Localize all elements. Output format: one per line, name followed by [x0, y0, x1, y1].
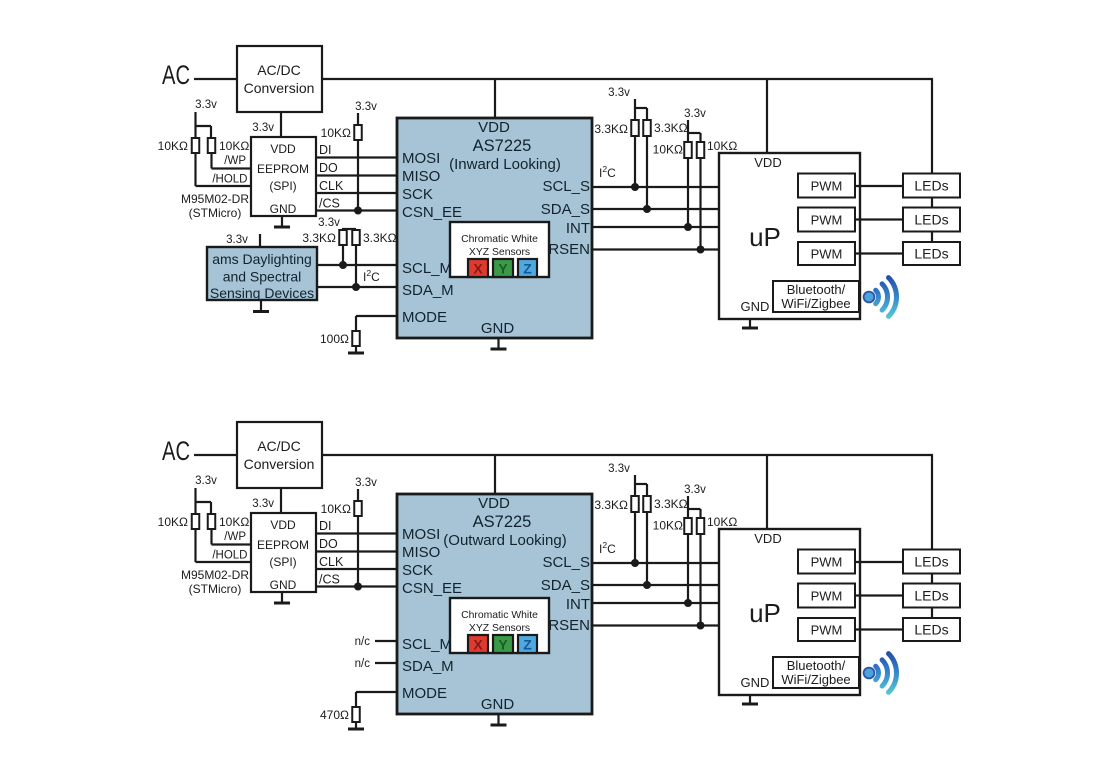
block LEDs 1 [903, 550, 960, 574]
block EEPROM (SPI) (top) [251, 137, 316, 216]
IC uP microcontroller (bottom) [719, 529, 860, 695]
svg-text:/WP: /WP [224, 531, 246, 543]
resistor 3.3K&#937; (SDA_S pullup) [643, 120, 651, 136]
svg-text:n/c: n/c [355, 658, 371, 670]
wire rail to AS7225 VDD [494, 79, 496, 119]
wire 3.3v feed [634, 99, 636, 120]
wire AC/DC to EEPROM VDD [280, 112, 282, 137]
junction RSEN [697, 622, 705, 630]
block EEPROM (SPI) (bottom) [251, 513, 316, 592]
svg-text:10KΩ: 10KΩ [707, 139, 737, 153]
resistor 10K&#937; (CSN_EE pullup) [354, 501, 362, 516]
wire SCL_M net [317, 264, 397, 266]
svg-text:VDD: VDD [270, 518, 296, 532]
wire SDA_M net [317, 286, 397, 288]
svg-text:10KΩ: 10KΩ [653, 519, 683, 533]
ground (AS7225) [497, 338, 499, 349]
wire 3.3v feed [687, 120, 689, 142]
resistor 3.3K&#937; (SDA_M pullup) [352, 230, 360, 245]
svg-text:SCL_S: SCL_S [542, 554, 590, 571]
resistor 10K&#937; (/WP pullup) [208, 514, 216, 529]
junction SCL_S [631, 183, 639, 191]
svg-text:I2C: I2C [363, 268, 380, 284]
svg-text:M95M02-DR: M95M02-DR [181, 192, 249, 206]
wire AC to AC/DC [194, 454, 237, 456]
svg-text:3.3v: 3.3v [252, 122, 274, 134]
icon wireless signal [864, 278, 897, 317]
block LEDs 2 [903, 208, 960, 232]
wire 3.3v to ams block [259, 234, 261, 247]
svg-text:10KΩ: 10KΩ [219, 139, 249, 153]
svg-text:LEDs: LEDs [914, 588, 948, 604]
block PWM 2 [798, 208, 855, 232]
svg-text:VDD: VDD [478, 119, 510, 136]
svg-text:X: X [473, 261, 483, 277]
svg-text:3.3v: 3.3v [355, 101, 377, 113]
svg-text:WiFi/Zigbee: WiFi/Zigbee [781, 296, 850, 311]
svg-text:(STMicro): (STMicro) [189, 206, 242, 220]
no-connect SDA_M [375, 662, 396, 664]
IC AS7225 (Outward Looking) [397, 494, 592, 714]
svg-text:AC: AC [162, 436, 190, 466]
block AC/DC Conversion (bottom) [237, 422, 322, 488]
block LEDs 2 [903, 584, 960, 608]
sensor X (red) [468, 635, 488, 653]
svg-text:(Outward Looking): (Outward Looking) [443, 532, 566, 549]
block LEDs 3 [903, 618, 960, 641]
sensor X (red) [468, 259, 488, 277]
svg-text:I2C: I2C [599, 164, 616, 180]
junction SDA_S [643, 205, 651, 213]
svg-text:CLK: CLK [319, 179, 344, 193]
wire PWM2 to LEDs2 [855, 594, 903, 596]
resistor 3.3K&#937; (SDA_S pullup) [643, 496, 651, 512]
wire PWM3 to LEDs3 [855, 628, 903, 630]
wire rail to AS7225 VDD [494, 455, 496, 495]
wire CLK-SCK [316, 568, 397, 570]
resistor 10K&#937; (/HOLD pullup) [192, 138, 200, 153]
svg-text:(SPI): (SPI) [269, 179, 296, 193]
svg-text:SCL_S: SCL_S [542, 178, 590, 195]
wire /HOLD net [194, 529, 196, 562]
sensor Z (blue) [518, 635, 537, 653]
svg-text:SDA_M: SDA_M [402, 282, 454, 299]
svg-text:MODE: MODE [402, 309, 447, 326]
wire resistor to /CS net [357, 516, 359, 587]
svg-text:/WP: /WP [224, 155, 246, 167]
svg-text:3.3v: 3.3v [318, 217, 340, 229]
wire resistor to ground [355, 722, 357, 729]
svg-text:3.3KΩ: 3.3KΩ [594, 122, 628, 136]
svg-text:LEDs: LEDs [914, 212, 948, 228]
svg-text:3.3v: 3.3v [684, 108, 706, 120]
svg-text:DO: DO [319, 161, 338, 175]
icon wireless signal [864, 654, 897, 693]
resistor 10K&#937; (CSN_EE pullup) [354, 125, 362, 140]
svg-text:3.3v: 3.3v [195, 475, 217, 487]
wire DI-MOSI [316, 532, 397, 534]
svg-text:MOSI: MOSI [402, 526, 440, 543]
svg-text:10KΩ: 10KΩ [321, 126, 351, 140]
svg-text:GND: GND [481, 320, 515, 337]
svg-text:10KΩ: 10KΩ [707, 515, 737, 529]
junction INT [684, 223, 692, 231]
svg-text:MOSI: MOSI [402, 150, 440, 167]
svg-text:CSN_EE: CSN_EE [402, 580, 462, 597]
svg-text:LEDs: LEDs [914, 246, 948, 262]
svg-text:Chromatic White: Chromatic White [461, 610, 538, 621]
wire 3.3v feed [687, 496, 689, 518]
svg-text:3.3KΩ: 3.3KΩ [654, 497, 688, 511]
wire LEDs2 to LEDs3 [931, 608, 933, 619]
svg-text:WiFi/Zigbee: WiFi/Zigbee [781, 672, 850, 687]
no-connect SCL_M [375, 640, 396, 642]
svg-text:Bluetooth/: Bluetooth/ [787, 658, 846, 673]
svg-text:3.3v: 3.3v [608, 87, 630, 99]
wire SDA_S net [592, 584, 719, 586]
wire LEDs1 to LEDs2 [931, 574, 933, 584]
wire PWM1 to LEDs1 [855, 561, 903, 563]
svg-text:CSN_EE: CSN_EE [402, 204, 462, 221]
resistor 10K&#937; (INT pullup) [684, 518, 692, 534]
svg-text:DI: DI [319, 143, 332, 157]
svg-text:PWM: PWM [811, 213, 843, 228]
svg-text:10KΩ: 10KΩ [158, 139, 188, 153]
wire /HOLD net [194, 153, 196, 186]
svg-text:PWM: PWM [811, 247, 843, 262]
svg-text:3.3KΩ: 3.3KΩ [363, 231, 397, 245]
IC uP microcontroller (top) [719, 153, 860, 319]
svg-text:ams Daylighting: ams Daylighting [212, 251, 312, 267]
svg-text:MODE: MODE [402, 685, 447, 702]
junction INT [684, 599, 692, 607]
svg-text:AC/DC: AC/DC [257, 62, 301, 78]
svg-text:/CS: /CS [319, 197, 340, 211]
svg-text:RSEN: RSEN [548, 241, 590, 258]
wire RSEN net [592, 248, 719, 250]
svg-text:3.3v: 3.3v [608, 463, 630, 475]
svg-text:AC: AC [162, 60, 190, 90]
wire rail to LEDs chain [931, 455, 933, 550]
svg-text:MISO: MISO [402, 544, 440, 561]
resistor 3.3K&#937; (SCL_M pullup) [339, 230, 347, 245]
wire AC to AC/DC [194, 78, 237, 80]
sensor Z (blue) [518, 259, 537, 277]
ground (uP) [749, 319, 751, 328]
svg-text:uP: uP [749, 222, 781, 252]
block PWM 1 [798, 550, 855, 574]
block Bluetooth/WiFi/Zigbee [773, 281, 859, 312]
svg-text:VDD: VDD [754, 155, 781, 170]
svg-text:GND: GND [270, 202, 297, 216]
svg-text:INT: INT [566, 220, 590, 237]
svg-text:470Ω: 470Ω [320, 708, 349, 722]
svg-text:SCL_M: SCL_M [402, 636, 452, 653]
wire 3.3v feed [194, 112, 196, 138]
svg-text:Z: Z [523, 261, 532, 277]
wire MODE net [356, 691, 397, 693]
wire 3.3v to resistor [357, 489, 359, 501]
ground (MODE) [348, 728, 364, 731]
resistor 10K&#937; (/HOLD pullup) [192, 514, 200, 529]
svg-text:n/c: n/c [355, 636, 371, 648]
wire PWM2 to LEDs2 [855, 218, 903, 220]
svg-text:M95M02-DR: M95M02-DR [181, 568, 249, 582]
block PWM 3 [798, 242, 855, 265]
block AC/DC Conversion (top) [237, 46, 322, 112]
svg-text:AS7225: AS7225 [473, 137, 532, 155]
svg-text:MISO: MISO [402, 168, 440, 185]
wire DO-MISO [316, 174, 397, 176]
svg-text:LEDs: LEDs [914, 554, 948, 570]
wire 3.3v to resistor [357, 113, 359, 125]
svg-text:/HOLD: /HOLD [212, 174, 247, 186]
svg-text:Sensing Devices: Sensing Devices [210, 285, 314, 301]
resistor 3.3K&#937; (SCL_S pullup) [631, 120, 639, 136]
wire MODE net [356, 315, 397, 317]
svg-text:GND: GND [481, 696, 515, 713]
svg-text:SCL_M: SCL_M [402, 260, 452, 277]
svg-text:EEPROM: EEPROM [257, 538, 309, 552]
block Chromatic White XYZ Sensors [450, 598, 549, 653]
wire INT net [592, 602, 719, 604]
junction SCL_M [339, 261, 347, 269]
junction CSN_EE/pullup [354, 583, 362, 591]
svg-text:RSEN: RSEN [548, 617, 590, 634]
svg-text:CLK: CLK [319, 555, 344, 569]
svg-text:AS7225: AS7225 [473, 513, 532, 531]
svg-text:INT: INT [566, 596, 590, 613]
wire SCL_S net [592, 562, 719, 564]
svg-text:10KΩ: 10KΩ [219, 515, 249, 529]
svg-text:SDA_S: SDA_S [541, 201, 590, 218]
ground (uP) [749, 695, 751, 704]
wire rail to uP VDD [766, 79, 768, 153]
svg-text:Bluetooth/: Bluetooth/ [787, 282, 846, 297]
svg-text:VDD: VDD [478, 495, 510, 512]
svg-text:VDD: VDD [754, 531, 781, 546]
svg-text:3.3v: 3.3v [684, 484, 706, 496]
wire INT net [592, 226, 719, 228]
ground (EEPROM) [281, 592, 283, 603]
block LEDs 3 [903, 242, 960, 265]
wire AC/DC to EEPROM VDD [280, 488, 282, 513]
wire SDA_S net [592, 208, 719, 210]
wire 3.3v feed [634, 475, 636, 496]
svg-text:100Ω: 100Ω [320, 332, 349, 346]
svg-text:Chromatic White: Chromatic White [461, 234, 538, 245]
junction CSN_EE/pullup [354, 207, 362, 215]
svg-text:X: X [473, 637, 483, 653]
resistor 10K&#937; (RSEN pullup) [697, 518, 705, 534]
svg-text:LEDs: LEDs [914, 178, 948, 194]
svg-text:DI: DI [319, 519, 332, 533]
wire /CS-CSN_EE [316, 209, 397, 211]
block PWM 2 [798, 584, 855, 608]
svg-text:SCK: SCK [402, 186, 433, 203]
wire LEDs1 to LEDs2 [931, 198, 933, 208]
svg-text:(STMicro): (STMicro) [189, 582, 242, 596]
svg-text:AC/DC: AC/DC [257, 438, 301, 454]
resistor R-mode 470&#937; [352, 707, 360, 722]
svg-text:DO: DO [319, 537, 338, 551]
svg-text:uP: uP [749, 598, 781, 628]
junction RSEN [697, 246, 705, 254]
block Chromatic White XYZ Sensors [450, 222, 549, 277]
svg-text:3.3v: 3.3v [355, 477, 377, 489]
svg-text:Conversion: Conversion [244, 80, 315, 96]
svg-text:GND: GND [741, 299, 770, 314]
svg-text:EEPROM: EEPROM [257, 162, 309, 176]
ground (AS7225) [497, 714, 499, 725]
svg-text:GND: GND [741, 675, 770, 690]
svg-text:VDD: VDD [270, 142, 296, 156]
wire rail to LEDs chain [931, 79, 933, 174]
wire CLK-SCK [316, 192, 397, 194]
svg-text:Conversion: Conversion [244, 456, 315, 472]
wire /WP net [210, 529, 212, 545]
ground (ams block) [260, 300, 262, 312]
svg-text:SDA_M: SDA_M [402, 658, 454, 675]
svg-text:3.3KΩ: 3.3KΩ [654, 121, 688, 135]
wire /CS-CSN_EE [316, 585, 397, 587]
svg-text:XYZ Sensors: XYZ Sensors [469, 247, 530, 258]
svg-text:10KΩ: 10KΩ [158, 515, 188, 529]
wire SCL_S net [592, 186, 719, 188]
sensor Y (green) [493, 635, 513, 653]
wire PWM3 to LEDs3 [855, 252, 903, 254]
svg-text:PWM: PWM [811, 555, 843, 570]
svg-text:PWM: PWM [811, 623, 843, 638]
wire 3.3v feed [342, 228, 344, 230]
svg-text:3.3v: 3.3v [226, 234, 248, 246]
svg-text:(Inward Looking): (Inward Looking) [449, 156, 561, 173]
wire 3.3v feed [194, 488, 196, 514]
wire VDD rail [322, 78, 933, 80]
resistor 10K&#937; (/WP pullup) [208, 138, 216, 153]
svg-text:10KΩ: 10KΩ [321, 502, 351, 516]
junction SDA_S [643, 581, 651, 589]
svg-text:PWM: PWM [811, 589, 843, 604]
svg-text:3.3KΩ: 3.3KΩ [594, 498, 628, 512]
junction SDA_M [352, 283, 360, 291]
wire /WP net [210, 153, 212, 169]
IC AS7225 (Inward Looking) [397, 118, 592, 338]
resistor R-mode 100&#937; [352, 331, 360, 346]
svg-text:LEDs: LEDs [914, 622, 948, 638]
svg-text:SDA_S: SDA_S [541, 577, 590, 594]
svg-text:3.3v: 3.3v [195, 99, 217, 111]
block PWM 1 [798, 174, 855, 198]
svg-text:/CS: /CS [319, 573, 340, 587]
svg-text:SCK: SCK [402, 562, 433, 579]
wire PWM1 to LEDs1 [855, 185, 903, 187]
svg-text:3.3KΩ: 3.3KΩ [302, 231, 336, 245]
svg-text:Y: Y [498, 637, 508, 653]
wire rail to uP VDD [766, 455, 768, 529]
wire resistor to /CS net [357, 140, 359, 211]
svg-text:XYZ Sensors: XYZ Sensors [469, 623, 530, 634]
wire resistor to ground [355, 346, 357, 353]
svg-text:10KΩ: 10KΩ [653, 143, 683, 157]
block ams Daylighting and Spectral Sensing Devices [207, 247, 317, 300]
resistor 3.3K&#937; (SCL_S pullup) [631, 496, 639, 512]
svg-text:/HOLD: /HOLD [212, 550, 247, 562]
svg-text:GND: GND [270, 578, 297, 592]
svg-text:I2C: I2C [599, 540, 616, 556]
wire LEDs2 to LEDs3 [931, 232, 933, 243]
svg-text:Y: Y [498, 261, 508, 277]
svg-text:3.3v: 3.3v [252, 498, 274, 510]
svg-text:and Spectral: and Spectral [223, 269, 302, 285]
block PWM 3 [798, 618, 855, 641]
sensor Y (green) [493, 259, 513, 277]
wire VDD rail [322, 454, 933, 456]
svg-text:PWM: PWM [811, 179, 843, 194]
ground (EEPROM) [281, 216, 283, 227]
resistor 10K&#937; (RSEN pullup) [697, 142, 705, 158]
wire DO-MISO [316, 550, 397, 552]
svg-text:(SPI): (SPI) [269, 555, 296, 569]
resistor 10K&#937; (INT pullup) [684, 142, 692, 158]
wire RSEN net [592, 624, 719, 626]
wire DI-MOSI [316, 156, 397, 158]
svg-text:Z: Z [523, 637, 532, 653]
block Bluetooth/WiFi/Zigbee [773, 657, 859, 688]
ground (MODE) [348, 352, 364, 355]
junction SCL_S [631, 559, 639, 567]
block LEDs 1 [903, 174, 960, 198]
